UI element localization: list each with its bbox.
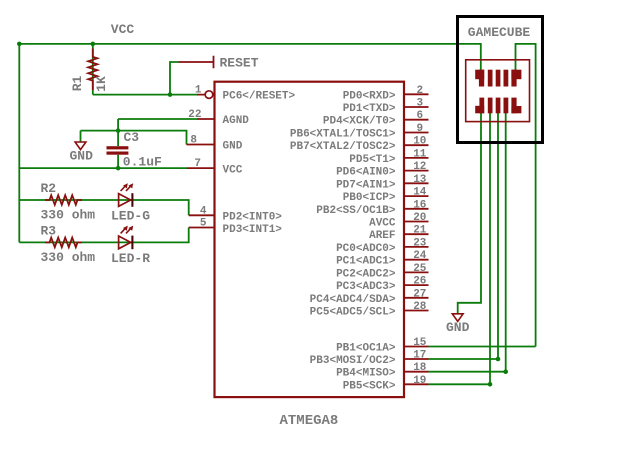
svg-text:PD5<T1>: PD5<T1>	[349, 154, 396, 166]
svg-text:PB3<MOSI/OC2>: PB3<MOSI/OC2>	[310, 355, 396, 367]
svg-text:LED-R: LED-R	[111, 251, 150, 266]
svg-text:PB5<SCK>: PB5<SCK>	[343, 380, 396, 392]
svg-text:PC2<ADC2>: PC2<ADC2>	[336, 268, 396, 280]
svg-text:5: 5	[200, 218, 207, 230]
svg-text:PD1<TXD>: PD1<TXD>	[343, 103, 396, 115]
svg-text:PB6<XTAL1/TOSC1>: PB6<XTAL1/TOSC1>	[290, 129, 396, 141]
svg-text:AREF: AREF	[369, 230, 395, 242]
svg-text:PC3<ADC3>: PC3<ADC3>	[336, 281, 396, 293]
svg-text:PC1<ADC1>: PC1<ADC1>	[336, 256, 396, 268]
svg-text:PD0<RXD>: PD0<RXD>	[343, 90, 396, 102]
svg-text:8: 8	[190, 135, 197, 147]
svg-text:PD4<XCK/T0>: PD4<XCK/T0>	[323, 116, 396, 128]
svg-text:PD3<INT1>: PD3<INT1>	[223, 224, 283, 236]
svg-text:VCC: VCC	[111, 22, 135, 37]
svg-text:PC0<ADC0>: PC0<ADC0>	[336, 243, 396, 255]
svg-text:PB4<MISO>: PB4<MISO>	[336, 368, 396, 380]
svg-text:AGND: AGND	[223, 115, 250, 127]
svg-text:PD7<AIN1>: PD7<AIN1>	[336, 179, 396, 191]
svg-text:330 ohm: 330 ohm	[41, 250, 96, 265]
svg-text:GAMECUBE: GAMECUBE	[468, 25, 531, 40]
svg-text:C3: C3	[124, 130, 140, 145]
svg-text:PC6</RESET>: PC6</RESET>	[223, 91, 296, 103]
svg-text:GND: GND	[223, 141, 243, 153]
svg-text:PC5<ADC5/SCL>: PC5<ADC5/SCL>	[310, 307, 396, 319]
svg-text:330 ohm: 330 ohm	[41, 207, 96, 222]
svg-text:0.1uF: 0.1uF	[123, 154, 162, 169]
svg-text:1: 1	[195, 85, 202, 97]
svg-text:PD6<AIN0>: PD6<AIN0>	[336, 167, 396, 179]
svg-text:VCC: VCC	[223, 165, 243, 177]
svg-text:GND: GND	[70, 148, 94, 163]
svg-text:4: 4	[200, 205, 207, 217]
svg-text:PB0<ICP>: PB0<ICP>	[343, 192, 396, 204]
svg-text:ATMEGA8: ATMEGA8	[280, 413, 339, 429]
svg-text:PB7<XTAL2/TOSC2>: PB7<XTAL2/TOSC2>	[290, 141, 396, 153]
svg-text:22: 22	[188, 109, 201, 121]
svg-text:R1: R1	[70, 76, 85, 92]
svg-text:R2: R2	[41, 181, 57, 196]
svg-text:7: 7	[194, 158, 201, 170]
svg-text:PC4<ADC4/SDA>: PC4<ADC4/SDA>	[310, 294, 396, 306]
svg-text:1K: 1K	[94, 76, 109, 92]
svg-text:PD2<INT0>: PD2<INT0>	[223, 212, 283, 224]
svg-text:PB1<OC1A>: PB1<OC1A>	[336, 343, 396, 355]
svg-text:GND: GND	[446, 320, 470, 335]
svg-text:LED-G: LED-G	[111, 209, 150, 224]
svg-text:R3: R3	[41, 224, 57, 239]
svg-text:RESET: RESET	[220, 56, 259, 71]
svg-text:AVCC: AVCC	[369, 218, 396, 230]
svg-text:PB2<SS/OC1B>: PB2<SS/OC1B>	[316, 205, 396, 217]
